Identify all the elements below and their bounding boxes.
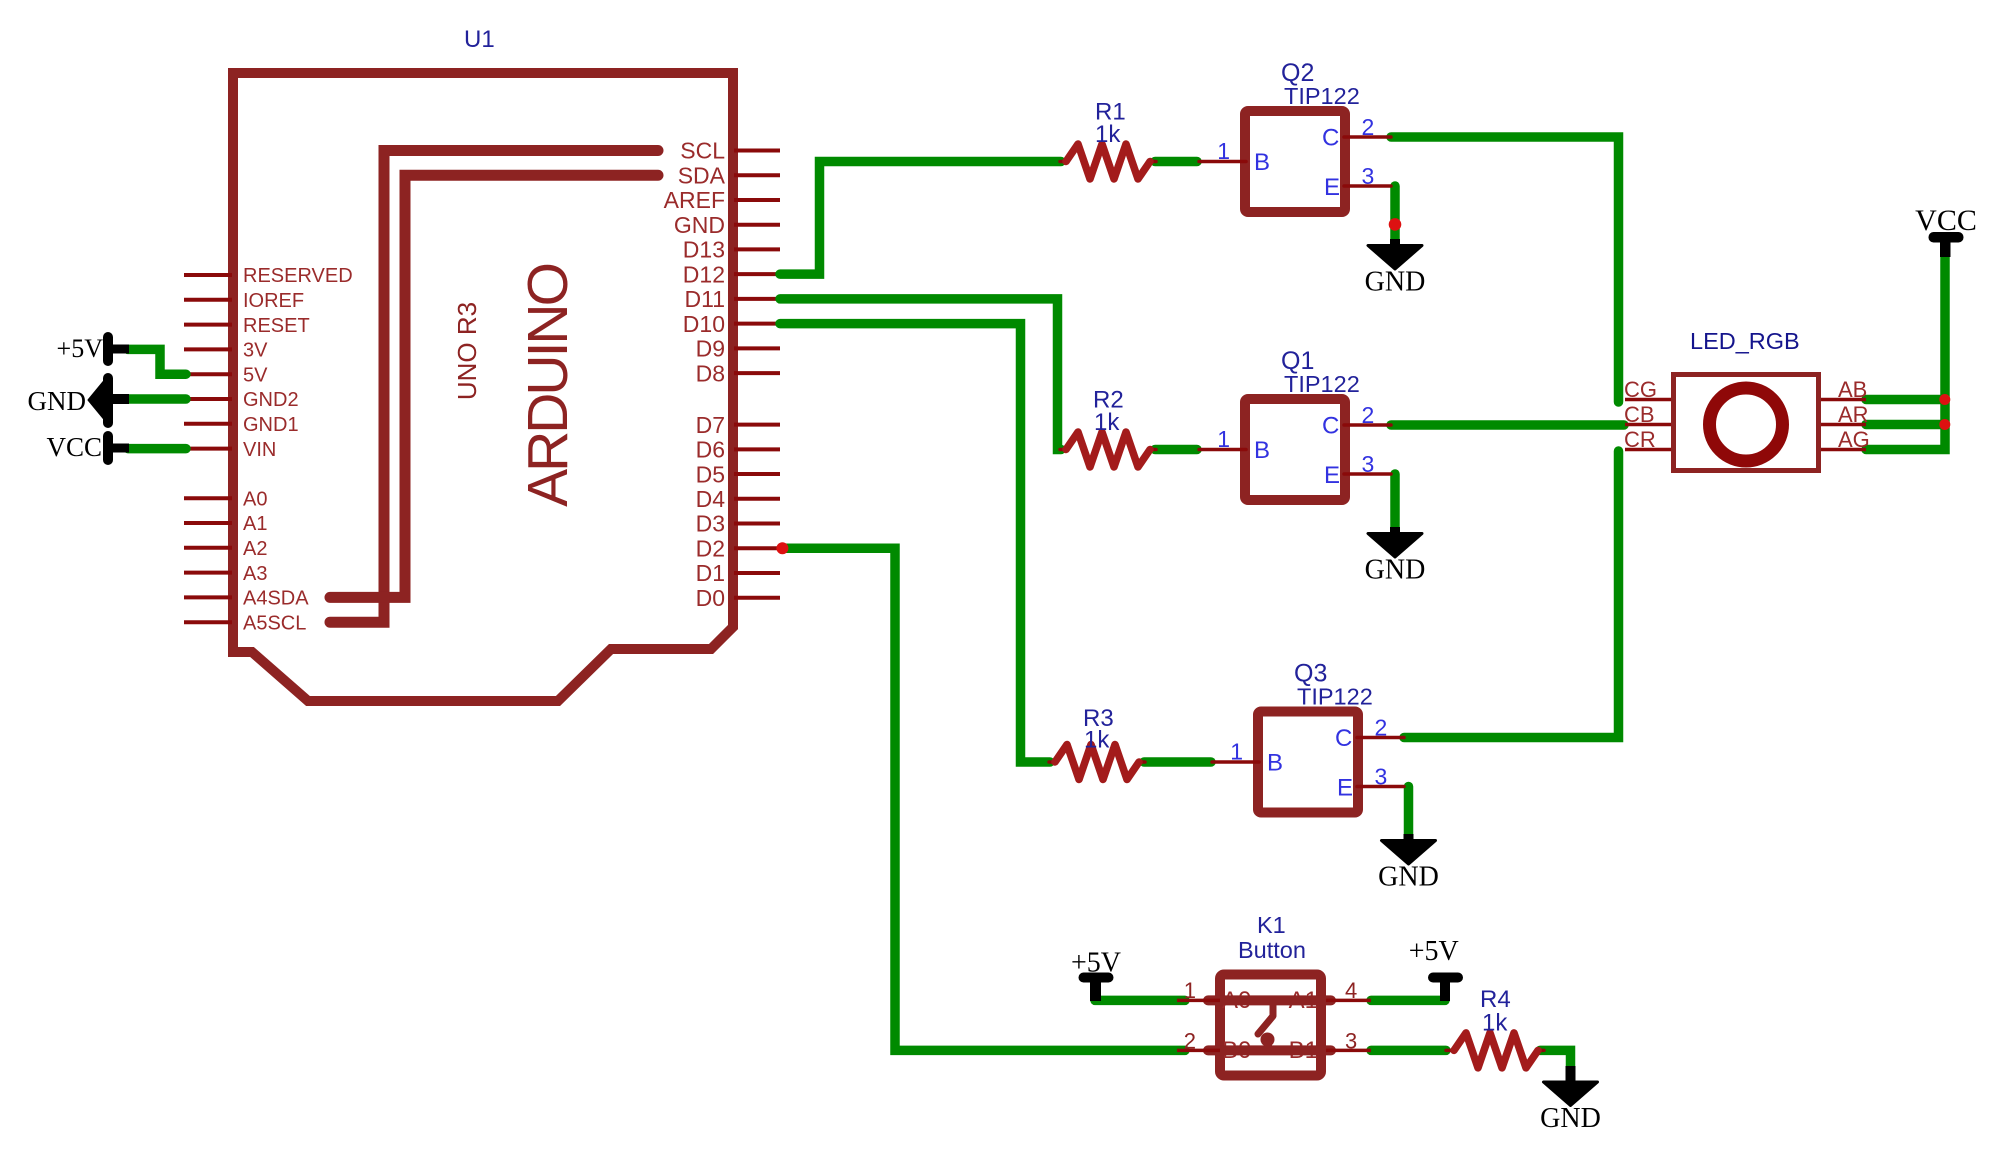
svg-text:A3: A3 — [243, 563, 267, 585]
svg-text:1: 1 — [1217, 426, 1230, 452]
wire D2 to button pin 2 — [784, 548, 1185, 1050]
svg-text:LED_RGB: LED_RGB — [1690, 328, 1800, 354]
svg-text:AG: AG — [1838, 427, 1870, 452]
svg-text:D5: D5 — [696, 461, 725, 487]
svg-text:A2: A2 — [243, 538, 267, 560]
+5V flag (button pin 1) — [1071, 948, 1121, 1002]
svg-text:AREF: AREF — [664, 187, 725, 213]
U1 internal SDA trace to A4SDA — [330, 175, 658, 597]
svg-text:D7: D7 — [696, 412, 725, 438]
K1 pin name texts — [1222, 987, 1318, 1064]
svg-text:CR: CR — [1624, 427, 1656, 452]
Q1 pin numbers — [1217, 402, 1374, 477]
wire +5V to button pin 1 — [1095, 996, 1185, 1006]
wire Q2 collector to LED CG — [1391, 137, 1619, 402]
U1 right-side pins — [734, 151, 780, 598]
svg-text:Button: Button — [1238, 937, 1306, 963]
wire +5V flag to 5V pin — [128, 349, 186, 374]
Q2 pin numbers — [1217, 114, 1374, 189]
resistor R3 1k — [1049, 745, 1145, 780]
svg-text:D6: D6 — [696, 437, 725, 463]
R1 labels — [1095, 99, 1126, 149]
U1 left pin labels — [243, 265, 353, 634]
svg-text:A1: A1 — [243, 513, 267, 535]
svg-text:D1: D1 — [696, 560, 725, 586]
svg-text:VCC: VCC — [1915, 204, 1977, 237]
wire R4 to ground — [1540, 1050, 1571, 1068]
wire button pin 4 to +5V — [1371, 996, 1445, 1006]
U1 reference label — [464, 26, 495, 53]
svg-text:U1: U1 — [464, 26, 495, 53]
IC U1 Arduino UNO R3 body outline — [233, 73, 733, 701]
svg-text:D9: D9 — [696, 336, 725, 362]
svg-text:1k: 1k — [1095, 121, 1121, 148]
LED_RGB pins — [1625, 400, 1866, 450]
svg-text:3V: 3V — [243, 340, 268, 362]
svg-text:GND: GND — [1378, 862, 1439, 893]
VCC flag (U1 VIN pin) — [46, 431, 129, 465]
K1 labels — [1238, 912, 1306, 963]
svg-text:2: 2 — [1375, 715, 1388, 741]
svg-text:1k: 1k — [1482, 1010, 1508, 1037]
K1 internal contact bars — [1208, 1000, 1331, 1050]
svg-text:3: 3 — [1375, 764, 1388, 790]
wire Q1 emitter to ground — [1390, 474, 1400, 527]
svg-text:A4SDA: A4SDA — [243, 588, 309, 610]
wire Q3 collector to LED CR — [1404, 451, 1619, 738]
svg-text:CB: CB — [1624, 402, 1655, 427]
svg-text:GND1: GND1 — [243, 414, 299, 436]
Q3 labels — [1294, 660, 1373, 710]
U1 left-side pins — [184, 275, 232, 622]
junction dot LED AB / VCC — [1939, 394, 1950, 405]
LED_RGB circle — [1710, 388, 1783, 461]
svg-text:B: B — [1254, 437, 1270, 464]
svg-text:1k: 1k — [1084, 727, 1110, 754]
svg-text:E: E — [1324, 462, 1340, 489]
LED_RGB label — [1690, 328, 1800, 354]
wire R1 to Q2 base — [1155, 157, 1197, 167]
svg-text:AB: AB — [1838, 377, 1867, 402]
K1 pin numbers — [1184, 978, 1358, 1054]
svg-text:RESET: RESET — [243, 315, 310, 337]
wire VCC flag to VIN pin — [128, 444, 186, 454]
svg-text:C: C — [1322, 124, 1339, 151]
svg-text:IOREF: IOREF — [243, 290, 304, 312]
ground (Q2 emitter) — [1365, 239, 1426, 298]
svg-text:TIP122: TIP122 — [1284, 371, 1360, 397]
R3 labels — [1083, 705, 1114, 754]
svg-text:1: 1 — [1184, 978, 1196, 1003]
svg-text:2: 2 — [1362, 402, 1375, 428]
svg-text:2: 2 — [1184, 1029, 1196, 1054]
svg-text:3: 3 — [1362, 163, 1375, 189]
svg-text:D2: D2 — [696, 535, 725, 561]
svg-text:E: E — [1337, 775, 1353, 802]
wire D10 to R3 — [780, 324, 1050, 762]
switch K1 Button box — [1220, 975, 1321, 1076]
svg-text:TIP122: TIP122 — [1284, 83, 1360, 109]
svg-text:GND: GND — [1365, 267, 1426, 298]
VCC flag (top right) — [1915, 204, 1977, 257]
U1 right pin labels — [664, 138, 726, 611]
ground flag (U1 GND2) — [28, 373, 130, 428]
+5V flag (U1 5V pin) — [57, 332, 129, 366]
svg-text:SCL: SCL — [680, 138, 725, 164]
svg-text:D3: D3 — [696, 511, 725, 537]
Q3 pin numbers — [1230, 715, 1387, 790]
svg-text:VIN: VIN — [243, 439, 276, 461]
svg-text:UNO R3: UNO R3 — [452, 302, 482, 400]
R4 labels — [1480, 986, 1511, 1037]
U1 ARDUINO text — [516, 264, 580, 507]
svg-text:B: B — [1267, 750, 1283, 777]
svg-text:D8: D8 — [696, 360, 725, 386]
svg-text:C: C — [1322, 412, 1339, 439]
svg-text:GND: GND — [28, 386, 87, 416]
transistor Q2 TIP122 — [1199, 111, 1391, 212]
ground (Q3 emitter) — [1378, 834, 1439, 893]
svg-text:2: 2 — [1362, 114, 1375, 140]
svg-text:D11: D11 — [685, 286, 726, 312]
svg-text:AR: AR — [1838, 402, 1869, 427]
svg-text:1: 1 — [1230, 739, 1243, 765]
wire Q2 emitter to ground — [1390, 186, 1400, 240]
wire Q1 collector to LED CB — [1391, 420, 1624, 430]
resistor R4 1k — [1446, 1033, 1544, 1068]
svg-text:D10: D10 — [683, 311, 725, 337]
svg-text:5V: 5V — [243, 364, 268, 386]
ground (R4) — [1540, 1066, 1601, 1134]
svg-text:GND: GND — [1365, 555, 1426, 586]
svg-text:D12: D12 — [683, 261, 725, 287]
K1 pins — [1177, 1000, 1371, 1050]
svg-text:+5V: +5V — [57, 334, 104, 363]
svg-text:VCC: VCC — [46, 432, 102, 462]
wire LED AR to VCC net — [1866, 420, 1945, 430]
svg-text:C: C — [1335, 725, 1352, 752]
wire R3 to Q3 base — [1144, 757, 1211, 767]
junction dot on Q2 ground wire — [1389, 218, 1402, 231]
wire GND flag to GND2 pin — [128, 394, 186, 404]
transistor Q3 TIP122 — [1212, 712, 1404, 813]
R2 labels — [1093, 387, 1124, 437]
svg-text:3: 3 — [1362, 451, 1375, 477]
svg-text:D4: D4 — [696, 486, 726, 512]
junction dot at D2 pin — [776, 542, 788, 554]
LED U2 LED_RGB box — [1674, 375, 1819, 471]
svg-text:GND: GND — [1540, 1103, 1601, 1134]
svg-text:4: 4 — [1345, 978, 1357, 1003]
wire D12 to R1 — [780, 162, 1061, 275]
K1 actuator lever — [1258, 1003, 1275, 1050]
svg-text:E: E — [1324, 174, 1340, 201]
svg-text:+5V: +5V — [1409, 936, 1459, 967]
svg-text:D13: D13 — [683, 237, 725, 263]
Q1 labels — [1281, 347, 1360, 397]
ground (Q1 emitter) — [1365, 527, 1426, 586]
resistor R1 1k — [1060, 144, 1156, 179]
svg-text:RESERVED: RESERVED — [243, 265, 353, 287]
Q2 labels — [1281, 59, 1360, 109]
svg-text:D0: D0 — [696, 585, 725, 611]
LED_RGB pin labels — [1624, 377, 1870, 452]
wire D11 to R2 — [780, 299, 1061, 450]
svg-text:SDA: SDA — [678, 162, 726, 188]
svg-text:ARDUINO: ARDUINO — [516, 264, 580, 507]
wire R2 to Q1 base — [1155, 445, 1197, 455]
+5V flag (button pin 4) — [1409, 936, 1463, 1001]
wire button pin 3 to R4 — [1371, 1046, 1446, 1056]
svg-text:GND: GND — [674, 212, 725, 238]
svg-text:3: 3 — [1345, 1029, 1357, 1054]
junction dot LED AR / VCC — [1939, 419, 1950, 430]
svg-text:K1: K1 — [1257, 912, 1286, 938]
transistor Q1 TIP122 — [1199, 399, 1391, 500]
svg-text:GND2: GND2 — [243, 389, 299, 411]
svg-text:A0: A0 — [243, 488, 267, 510]
svg-text:+5V: +5V — [1071, 948, 1121, 979]
resistor R2 1k — [1060, 432, 1156, 467]
wire VCC to LED AG — [1866, 256, 1945, 450]
U1 internal SCL trace to A5SCL — [330, 151, 658, 623]
U1 UNO R3 text — [452, 302, 482, 400]
wire LED AB to VCC net — [1866, 395, 1945, 405]
svg-text:1: 1 — [1217, 138, 1230, 164]
svg-text:B: B — [1254, 149, 1270, 176]
svg-text:A5SCL: A5SCL — [243, 612, 306, 634]
svg-text:TIP122: TIP122 — [1297, 684, 1373, 710]
svg-text:CG: CG — [1624, 377, 1657, 402]
svg-text:1k: 1k — [1094, 409, 1120, 436]
wire Q3 emitter to ground — [1404, 787, 1414, 836]
